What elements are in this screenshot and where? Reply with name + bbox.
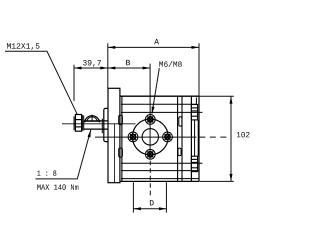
extension line right B: [149, 64, 151, 115]
screw S: [145, 149, 155, 159]
body front face: [121, 96, 123, 181]
label 39,7: [83, 60, 101, 67]
arrow 39,7 right: [100, 67, 108, 70]
shaft collar: [101, 119, 103, 134]
leader 1:8: [36, 130, 91, 179]
screw E: [163, 132, 173, 142]
arrow A right: [192, 46, 200, 49]
top port line: [121, 111, 202, 113]
body top step line: [121, 103, 196, 105]
shaft centerline: [62, 123, 136, 125]
shaft body: [84, 121, 108, 129]
bore circle: [142, 129, 158, 145]
body bottom step line 2: [121, 178, 199, 180]
bottom port line: [121, 162, 202, 164]
port pad edge 1: [194, 120, 196, 156]
arrow D left: [133, 207, 141, 210]
dimension D line: [133, 208, 166, 210]
cover joint: [190, 96, 192, 181]
arrow 1:8: [88, 130, 91, 138]
screw W: [128, 132, 138, 142]
extension line A right: [198, 43, 200, 96]
dashed stub right: [199, 136, 227, 138]
mounting flange plate: [108, 88, 120, 182]
flange horizontal centerline solid part: [95, 136, 196, 138]
arrow A left: [108, 46, 116, 49]
arrow D right: [159, 207, 167, 210]
body bottom edge: [120, 180, 199, 182]
label B: [126, 60, 130, 65]
leader M6/M8: [152, 68, 159, 113]
flange vertical centerline dashed part: [149, 161, 151, 196]
label A: [154, 39, 159, 44]
washer: [82, 115, 83, 130]
bottom port boss: [191, 156, 197, 171]
dowel pin rear bottom: [178, 148, 181, 156]
extension line left 39,7: [73, 65, 75, 101]
dowel pin front bottom: [119, 148, 123, 157]
shaft taper dome: [85, 115, 100, 123]
dimension A line: [108, 46, 199, 48]
arrow 39,7 left: [74, 67, 82, 70]
body top edge: [120, 95, 199, 97]
body bottom step line 1: [121, 170, 199, 172]
screw N: [145, 115, 155, 125]
arrow 102 bottom: [230, 174, 233, 182]
flange vertical centerline solid part: [149, 114, 151, 159]
arrow B left: [108, 67, 116, 70]
label M12X1,5: [7, 43, 40, 50]
label M6/M8: [159, 61, 182, 67]
leader for M12X1,5: [5, 51, 77, 114]
extension 102 top: [200, 95, 234, 97]
extension D left: [132, 182, 134, 212]
dowel pin rear top: [179, 117, 182, 126]
arrow 102 top: [230, 96, 233, 104]
dimension 39,7 and B line: [74, 67, 150, 69]
arrow M6/M8: [152, 107, 155, 115]
back face: [198, 96, 200, 181]
nut M12: [75, 115, 81, 132]
label D: [150, 200, 154, 205]
label MAX 140 Nm: [37, 184, 78, 190]
label 102: [237, 132, 250, 138]
shaft tip face: [73, 116, 75, 130]
extension D right: [165, 182, 167, 212]
extension 102 bottom: [200, 180, 234, 182]
short vertical top right: [195, 98, 197, 105]
label 1 : 8: [37, 170, 56, 176]
extension line A left: [107, 43, 109, 88]
pilot circle: [132, 119, 168, 155]
housing joint line 1: [177, 96, 179, 181]
dimension 102 line: [230, 96, 232, 181]
flange plate inner face: [113, 124, 115, 183]
housing joint line 2: [181, 96, 183, 181]
arrow B right: [143, 67, 151, 70]
port pad edge 2: [197, 120, 199, 156]
dowel pin front top: [119, 115, 123, 124]
shaft hub boss: [104, 108, 108, 141]
top port boss: [191, 105, 197, 120]
